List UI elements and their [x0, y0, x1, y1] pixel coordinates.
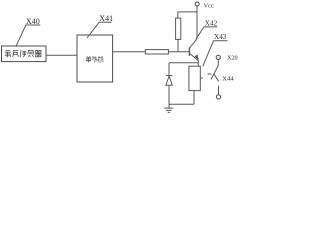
char ji: [98, 56, 103, 62]
svg-text:X44: X44: [222, 76, 234, 83]
transistor X42 collector lead: [190, 39, 197, 48]
text oxygen-sensor (Chinese) in box X40: [5, 50, 42, 57]
wire diode D1 top stub: [168, 63, 170, 76]
svg-text:X20: X20: [227, 54, 238, 61]
Vcc terminal circle: [195, 2, 199, 6]
switch X44 top terminal circle (X20): [216, 55, 220, 59]
svg-text:X42: X42: [205, 20, 218, 28]
wire Vcc branch to R2: [178, 11, 197, 13]
resistor R2 (vertical, pull-up) top stub: [177, 12, 179, 18]
ground bar 3: [168, 111, 171, 113]
relay coil X43 right pin tick: [200, 77, 203, 79]
char qi4: [35, 50, 41, 56]
wire relay coil bottom stub: [193, 91, 195, 105]
label X44 leader line: [214, 74, 219, 81]
wire emitter node to diode D1 cathode: [169, 62, 198, 64]
char yang: [5, 50, 11, 57]
label X43 leader line: [203, 41, 228, 67]
char qi: [13, 51, 19, 57]
resistor R2 (vertical) body: [176, 18, 181, 39]
block X40 oxygen sensor box: [2, 46, 47, 62]
wire switch bottom stub: [218, 86, 220, 95]
ground stem: [168, 104, 170, 108]
diode D1 triangle: [166, 76, 172, 85]
relay coil X43 box: [189, 66, 200, 90]
svg-text:Vcc: Vcc: [204, 2, 214, 9]
svg-text:X43: X43: [214, 33, 227, 41]
wire R1 to base of Q X42: [168, 51, 189, 53]
char gan: [28, 51, 34, 57]
wire X20 terminal stub: [217, 60, 219, 66]
switch X44 bottom terminal circle: [216, 95, 220, 99]
svg-text:X40: X40: [26, 17, 40, 26]
label X41 leader line: [87, 22, 112, 38]
transistor X42 emitter arrow: [195, 55, 199, 61]
switch X44 blade: [211, 66, 218, 80]
ground bar 2: [166, 109, 172, 111]
resistor R1 (horizontal, base series): [145, 50, 168, 54]
svg-text:X41: X41: [99, 14, 113, 23]
wire Vcc vertical to collector of X42: [196, 6, 198, 39]
text MCU (Chinese) in box X41: [86, 56, 103, 62]
wire box X41 to resistor R1: [113, 51, 146, 53]
char pian: [92, 56, 97, 62]
wire emitter down to relay coil X43: [197, 61, 199, 66]
char dan: [86, 56, 91, 62]
wire diode D1 anode down: [168, 85, 170, 104]
block X41 MCU box: [77, 35, 113, 82]
wire R2 bottom to base node: [177, 39, 179, 51]
diode D1 cathode bar: [166, 75, 172, 77]
transistor X42 emitter lead: [190, 53, 199, 60]
wire box X40 to box X41: [46, 54, 77, 56]
transistor X42 base bar: [188, 47, 190, 56]
switch X44 fixed contact tick: [208, 73, 212, 75]
label X40 leader line: [16, 25, 41, 47]
wire bottom rail to ground: [169, 103, 194, 105]
ground bar 1: [164, 107, 173, 109]
char chuan: [20, 50, 26, 57]
label X42 leader line: [196, 27, 217, 39]
